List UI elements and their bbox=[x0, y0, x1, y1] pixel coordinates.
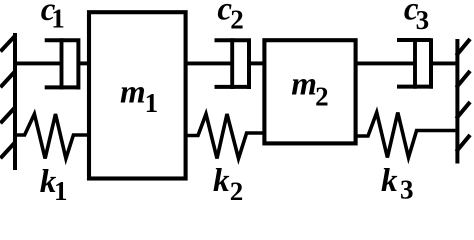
svg-text:2: 2 bbox=[230, 5, 244, 35]
label c1 bbox=[41, 0, 65, 33]
label k1 bbox=[40, 164, 68, 206]
svg-text:m: m bbox=[120, 74, 146, 110]
damper c2 bbox=[186, 38, 265, 89]
rod m2 to piston bbox=[356, 61, 415, 65]
svg-text:2: 2 bbox=[315, 81, 329, 111]
wall left bbox=[2, 35, 15, 168]
wall right bbox=[457, 41, 468, 162]
cylinder bbox=[215, 38, 250, 89]
label k2 bbox=[213, 163, 243, 206]
damper c1 bbox=[15, 38, 89, 89]
rod cylinder to mass m1 bbox=[78, 61, 89, 65]
rod m1 to piston bbox=[186, 61, 233, 65]
svg-text:m: m bbox=[291, 66, 317, 102]
spring k3 bbox=[356, 113, 458, 158]
spring k1 bbox=[14, 114, 89, 159]
svg-text:1: 1 bbox=[54, 176, 68, 200]
piston plate bbox=[413, 38, 417, 88]
piston plate bbox=[60, 38, 64, 89]
spring k2 bbox=[186, 114, 265, 159]
svg-text:2: 2 bbox=[230, 176, 244, 200]
svg-text:1: 1 bbox=[51, 3, 65, 33]
svg-text:3: 3 bbox=[416, 5, 430, 35]
mass m1 bbox=[89, 12, 186, 178]
rod cylinder to mass m2 bbox=[249, 61, 265, 65]
label k3 bbox=[381, 163, 414, 205]
mass m2 bbox=[264, 40, 355, 143]
rod cylinder to wall bbox=[431, 61, 457, 65]
cylinder bbox=[397, 38, 431, 88]
label m2 bbox=[291, 66, 328, 111]
svg-text:k: k bbox=[213, 163, 230, 199]
label m1 bbox=[120, 74, 158, 118]
svg-text:k: k bbox=[381, 163, 398, 199]
svg-text:1: 1 bbox=[145, 88, 159, 118]
piston plate bbox=[230, 38, 234, 89]
cylinder bbox=[45, 38, 79, 89]
damper c3 bbox=[356, 38, 458, 88]
label c2 bbox=[217, 0, 243, 35]
label c3 bbox=[404, 0, 429, 35]
rod wall to piston bbox=[15, 61, 62, 65]
svg-text:3: 3 bbox=[400, 175, 414, 200]
